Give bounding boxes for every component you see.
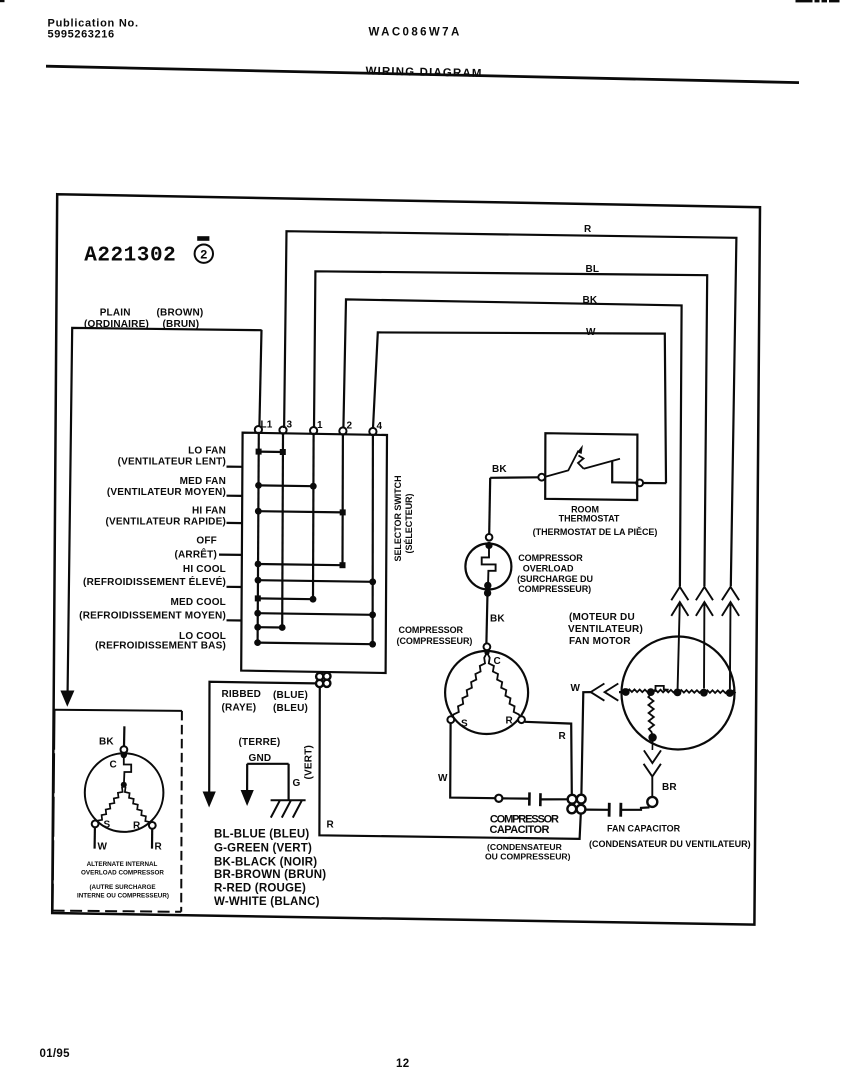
- wire ribbed blue from cluster to arrow: [209, 682, 316, 793]
- svg-text:WAC086W7A: WAC086W7A: [369, 27, 462, 39]
- connector chevrons wire R: [722, 587, 739, 600]
- corner marks top-right: [796, 0, 840, 2]
- fan capacitor wire to terminal: [621, 807, 650, 809]
- row MED FAN L1-1: [259, 484, 314, 487]
- row cool compressor 3 L1-4: [258, 643, 373, 645]
- svg-text:R: R: [559, 731, 567, 742]
- compressor left winding: [451, 653, 487, 720]
- overload bottom dots: [484, 582, 491, 589]
- svg-text:SELECTOR SWITCH: SELECTOR SWITCH: [393, 475, 403, 561]
- alt S terminal: [92, 821, 99, 828]
- wire R from cluster down and across to capacitor junction: [319, 687, 580, 839]
- terminal 4: [369, 428, 376, 435]
- svg-text:4: 4: [377, 421, 383, 432]
- terminal 1: [310, 427, 317, 434]
- svg-text:BR-BROWN (BRUN): BR-BROWN (BRUN): [214, 869, 326, 881]
- svg-text:COMPRESSOR: COMPRESSOR: [518, 553, 583, 563]
- junction cluster (capacitor common): [568, 795, 577, 804]
- svg-text:INTERNE OU COMPRESSEUR): INTERNE OU COMPRESSEUR): [77, 893, 169, 900]
- svg-text:R: R: [155, 841, 163, 852]
- motor winding chord: [622, 689, 736, 693]
- svg-text:G: G: [293, 778, 301, 789]
- svg-text:MED COOL: MED COOL: [171, 597, 227, 608]
- svg-text:(AUTRE SURCHARGE: (AUTRE SURCHARGE: [89, 884, 155, 891]
- thermostat contact arm: [546, 451, 579, 477]
- motor tap dots: [622, 688, 630, 696]
- svg-text:2: 2: [200, 249, 208, 263]
- row HI COOL L1-2: [258, 564, 343, 565]
- svg-text:BK: BK: [99, 737, 114, 748]
- compressor capacitor wire to plate: [502, 797, 528, 799]
- svg-text:HI COOL: HI COOL: [183, 564, 226, 575]
- BR lead from motor bottom: [651, 740, 653, 750]
- svg-text:BK: BK: [492, 464, 507, 475]
- overload top terminal: [486, 534, 493, 541]
- wire BK overload to compressor: [486, 593, 487, 643]
- fan motor circle: [622, 637, 735, 750]
- alt overload element: [124, 755, 131, 782]
- wire BL (top run from terminal 1): [314, 271, 707, 586]
- svg-text:2: 2: [347, 421, 353, 432]
- svg-text:BK: BK: [583, 295, 598, 306]
- svg-text:(SURCHARGE DU: (SURCHARGE DU: [517, 574, 593, 584]
- terminal 3: [279, 427, 286, 434]
- thermostat arm arrowhead: [577, 445, 583, 454]
- wire BK into thermostat: [490, 476, 538, 479]
- alt left winding: [95, 785, 124, 824]
- svg-text:PLAIN: PLAIN: [100, 307, 131, 318]
- room thermostat box: [545, 433, 637, 500]
- svg-text:RIBBED: RIBBED: [222, 689, 262, 700]
- wire from motor left tap to chevrons: [619, 691, 626, 693]
- svg-text:3: 3: [287, 420, 293, 431]
- BR chevron 2: [644, 764, 661, 797]
- svg-text:W: W: [586, 327, 596, 338]
- svg-text:BK-BLACK (NOIR): BK-BLACK (NOIR): [214, 857, 317, 869]
- overload element: [482, 546, 496, 584]
- BR chevron 1: [644, 750, 661, 763]
- svg-text:W-WHITE (BLANC): W-WHITE (BLANC): [214, 896, 320, 908]
- svg-text:(REFROIDISSEMENT ÉLEVÉ): (REFROIDISSEMENT ÉLEVÉ): [83, 575, 226, 588]
- thermostat fixed contact line: [584, 459, 620, 469]
- svg-text:BL: BL: [586, 264, 600, 275]
- smudge above revision circle: [197, 236, 209, 241]
- svg-text:ALTERNATE INTERNAL: ALTERNATE INTERNAL: [87, 861, 158, 868]
- svg-text:CAPACITOR: CAPACITOR: [490, 824, 550, 836]
- svg-text:BR: BR: [662, 782, 677, 793]
- svg-text:W: W: [98, 841, 108, 852]
- wire W (top run from terminal 4): [373, 332, 666, 483]
- tick OFF: [219, 553, 242, 556]
- compressor overload circle: [465, 544, 511, 590]
- wire BK down to overload: [489, 478, 490, 534]
- gnd bracket: [247, 764, 289, 800]
- corner mark top-left: [0, 0, 5, 2]
- column 4: [372, 435, 374, 643]
- motor W lead chevrons: [605, 684, 619, 701]
- revision circle 2: [195, 245, 213, 263]
- svg-text:(VERT): (VERT): [304, 745, 315, 780]
- tick HI FAN: [227, 522, 243, 524]
- alt junction dot: [121, 782, 127, 788]
- row HI FAN L1-2: [258, 511, 342, 512]
- svg-text:G-GREEN (VERT): G-GREEN (VERT): [214, 843, 312, 855]
- row LO COOL L1-3: [258, 626, 283, 628]
- wire: brown plain L1 feed, horizontal + left drop to alternate box arrow: [68, 328, 262, 692]
- alt R terminal: [149, 822, 156, 829]
- svg-text:THERMOSTAT: THERMOSTAT: [559, 514, 620, 524]
- svg-text:(VENTILATEUR MOYEN): (VENTILATEUR MOYEN): [107, 487, 226, 498]
- wire W from S to compressor capacitor: [450, 723, 495, 798]
- svg-text:FAN MOTOR: FAN MOTOR: [569, 636, 631, 647]
- svg-text:OU COMPRESSEUR): OU COMPRESSEUR): [485, 851, 571, 861]
- compressor S terminal: [447, 716, 454, 723]
- selector switch box: [241, 433, 387, 673]
- svg-text:(BLEU): (BLEU): [273, 703, 308, 714]
- svg-text:(THERMOSTAT DE LA PIĚCE): (THERMOSTAT DE LA PIĚCE): [533, 526, 658, 537]
- svg-text:LO FAN: LO FAN: [188, 445, 226, 456]
- alt wire top: [123, 726, 126, 746]
- alt right winding: [124, 785, 153, 826]
- svg-text:R: R: [133, 821, 141, 832]
- ribbed blue arrow: [203, 792, 216, 808]
- compressor right winding: [487, 653, 522, 720]
- compressor circle: [445, 651, 528, 734]
- svg-text:(BLUE): (BLUE): [273, 690, 308, 701]
- svg-text:(RAYE): (RAYE): [222, 702, 257, 713]
- svg-text:COMPRESSOR: COMPRESSOR: [399, 625, 464, 635]
- svg-text:R: R: [584, 224, 592, 235]
- svg-text:OVERLOAD COMPRESSOR: OVERLOAD COMPRESSOR: [81, 870, 164, 877]
- svg-text:W: W: [571, 683, 581, 694]
- row MED COOL L1-1: [258, 597, 313, 600]
- svg-text:COMPRESSEUR): COMPRESSEUR): [518, 584, 591, 594]
- svg-text:VENTILATEUR): VENTILATEUR): [568, 624, 643, 635]
- alternate overload compressor box: [55, 710, 182, 711]
- svg-text:01/95: 01/95: [40, 1048, 71, 1060]
- wire R (top run from terminal 3): [284, 231, 736, 586]
- fan capacitor plates: [609, 803, 621, 817]
- svg-text:(SÉLECTEUR): (SÉLECTEUR): [404, 493, 414, 553]
- svg-text:(BROWN): (BROWN): [157, 307, 204, 318]
- svg-text:FAN CAPACITOR: FAN CAPACITOR: [607, 824, 681, 834]
- svg-text:R-RED (ROUGE): R-RED (ROUGE): [214, 883, 306, 895]
- alt S wire: [93, 827, 96, 848]
- svg-text:(VENTILATEUR RAPIDE): (VENTILATEUR RAPIDE): [106, 516, 226, 527]
- gnd arrow: [241, 790, 254, 806]
- thermostat right leg: [612, 461, 666, 483]
- svg-text:OFF: OFF: [196, 536, 217, 547]
- motor bottom dot (BR tap): [648, 733, 656, 741]
- svg-text:(REFROIDISSEMENT MOYEN): (REFROIDISSEMENT MOYEN): [79, 611, 226, 622]
- tick MED COOL: [227, 619, 243, 621]
- compressor capacitor terminal: [495, 795, 502, 802]
- svg-text:(ARRÊT): (ARRÊT): [174, 548, 217, 561]
- svg-text:MED FAN: MED FAN: [180, 476, 226, 487]
- wire R from compressor to junction: [525, 722, 572, 795]
- svg-text:(VENTILATEUR LENT): (VENTILATEUR LENT): [118, 456, 226, 467]
- thermostat right terminal: [636, 480, 643, 487]
- fan capacitor wire from cluster: [586, 808, 608, 810]
- svg-text:12: 12: [396, 1058, 409, 1070]
- svg-text:(MOTEUR DU: (MOTEUR DU: [569, 612, 635, 623]
- svg-text:1: 1: [317, 420, 323, 431]
- motor winding step bump: [656, 686, 669, 692]
- column 1: [312, 434, 315, 599]
- alt C dot: [121, 752, 127, 758]
- compressor capacitor wire to cluster: [540, 798, 567, 800]
- svg-text:R: R: [506, 716, 514, 727]
- svg-text:S: S: [461, 719, 468, 730]
- svg-text:(REFROIDISSEMENT BAS): (REFROIDISSEMENT BAS): [95, 640, 226, 651]
- svg-text:(CONDENSATEUR DU VENTILATEUR): (CONDENSATEUR DU VENTILATEUR): [589, 839, 751, 849]
- column 2: [341, 435, 344, 565]
- row LO FAN L1-3: [259, 451, 283, 454]
- svg-text:5995263216: 5995263216: [48, 28, 115, 40]
- svg-text:HI FAN: HI FAN: [192, 506, 226, 517]
- column 3: [281, 434, 284, 628]
- svg-text:S: S: [104, 820, 111, 831]
- header rule: [46, 66, 799, 82]
- svg-text:(COMPRESSEUR): (COMPRESSEUR): [397, 636, 473, 646]
- wire W from chevrons down to cluster: [581, 692, 590, 794]
- arrow into alternate box: [60, 691, 74, 707]
- thermostat bimetal wiggle: [578, 456, 584, 469]
- svg-text:(TERRE): (TERRE): [239, 737, 281, 748]
- compressor R terminal: [518, 716, 525, 723]
- motor vertical winding: [648, 694, 654, 736]
- wire: L1 terminal drop: [259, 330, 261, 427]
- alt motor circle: [85, 753, 164, 832]
- svg-text:A221302: A221302: [84, 245, 176, 268]
- diagram border: [52, 194, 760, 924]
- svg-text:GND: GND: [249, 753, 272, 764]
- svg-text:OVERLOAD: OVERLOAD: [523, 563, 574, 573]
- grommet cluster at switch bottom: [316, 673, 323, 680]
- row cool compressor 2 L1-4: [258, 613, 373, 615]
- svg-text:BL-BLUE (BLEU): BL-BLUE (BLEU): [214, 829, 309, 841]
- compressor C vertex dot: [484, 650, 489, 655]
- tick MED FAN: [227, 495, 243, 497]
- overload top dot: [485, 542, 492, 549]
- connector chevrons wire BK: [671, 587, 688, 600]
- alt R wire: [151, 829, 153, 849]
- compressor capacitor plates: [529, 792, 540, 806]
- tick LO FAN: [227, 466, 243, 468]
- svg-text:L1: L1: [261, 420, 273, 431]
- wire BK (top run from terminal 2): [343, 299, 681, 586]
- connector chevrons wire BL: [696, 587, 713, 600]
- ground symbol: [271, 800, 306, 817]
- fan capacitor terminal: [647, 797, 657, 807]
- terminal 2: [339, 427, 346, 434]
- compressor top terminal: [484, 643, 491, 650]
- svg-text:R: R: [327, 819, 335, 830]
- row cool compressor 1 L1-4: [258, 580, 373, 582]
- tick HI COOL: [227, 586, 243, 588]
- column L1: [258, 433, 259, 643]
- svg-text:W: W: [438, 773, 448, 784]
- svg-text:BK: BK: [490, 614, 505, 625]
- alt top terminal: [121, 746, 128, 753]
- svg-text:C: C: [110, 760, 117, 771]
- thermostat left terminal: [538, 474, 545, 481]
- terminal L1 (square): [255, 426, 262, 433]
